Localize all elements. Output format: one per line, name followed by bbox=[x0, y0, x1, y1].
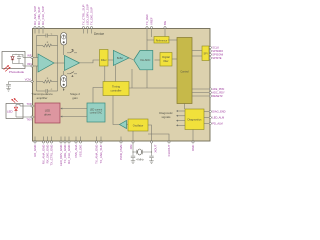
LED internal rails bbox=[16, 105, 20, 118]
svg-text:TX_DIG_SUP: TX_DIG_SUP bbox=[90, 7, 94, 25]
sigma-delta ADC U1 bbox=[134, 51, 153, 70]
pin TX_CTRL_SUP (top) bbox=[82, 5, 86, 34]
LED diode D2 bbox=[14, 105, 17, 118]
device label bbox=[94, 32, 104, 36]
op-amp A2 stage 2 gain bbox=[65, 55, 80, 70]
pin AFE_PDN bbox=[192, 87, 224, 91]
pin TX_DIG_GND (bottom) bbox=[63, 137, 67, 164]
diagnostic signals label bbox=[159, 111, 173, 119]
svg-text:LED: LED bbox=[7, 109, 13, 113]
diagnostic signal arrows bbox=[176, 110, 185, 126]
wire digital filter to control bbox=[172, 58, 177, 60]
pin TXN bbox=[20, 116, 35, 122]
ground (C1) bbox=[131, 161, 135, 164]
pin RX_ANA_SUP (top) bbox=[33, 6, 37, 34]
pin TX_DIG_SUP (top) bbox=[90, 7, 94, 34]
filter block bbox=[100, 50, 109, 67]
svg-text:RESETZ: RESETZ bbox=[212, 94, 223, 98]
pin INP bbox=[23, 54, 38, 59]
op-amp A1 transimpedance bbox=[38, 54, 54, 72]
TIA feedback rail left bbox=[36, 36, 38, 92]
pin VSS_ANA (bottom) bbox=[74, 137, 78, 158]
clock buffer amp A4 bbox=[120, 121, 127, 129]
svg-text:SPI: SPI bbox=[203, 52, 207, 55]
svg-text:control DAC: control DAC bbox=[90, 112, 103, 115]
wire diagnostics to bottom pin bbox=[192, 130, 194, 142]
svg-text:TX_CTRL_GND: TX_CTRL_GND bbox=[50, 145, 54, 166]
pin PD_ALM bbox=[204, 122, 223, 126]
pin DIAG_END bbox=[204, 110, 226, 114]
wire control to SPI bus bbox=[192, 51, 202, 57]
feedback resistor RF (upper) bbox=[37, 42, 58, 47]
current source I2 (bottom) bbox=[61, 71, 67, 91]
LED current control DAC block bbox=[87, 103, 105, 122]
wire ADC clock lines bbox=[132, 69, 147, 88]
light arrows into photodiode bbox=[4, 65, 11, 71]
junction XIN bbox=[132, 151, 133, 152]
svg-text:AFE_PDN: AFE_PDN bbox=[212, 87, 224, 91]
pin VCM bbox=[9, 78, 35, 83]
wire ADC to digital filter bbox=[155, 59, 161, 61]
wire stage2 to filter bbox=[80, 60, 100, 63]
svg-text:Reference: Reference bbox=[156, 39, 168, 42]
pin TX_REF (top) bbox=[145, 14, 149, 40]
pin TX_ANA_SUP (bottom) bbox=[99, 137, 103, 164]
pin RX_CLK_SUP (top) bbox=[41, 6, 45, 33]
capacitor C2 (XOUT) bbox=[149, 152, 153, 161]
svg-text:SCLK: SCLK bbox=[212, 46, 219, 50]
gain switch (upper) bbox=[67, 49, 77, 53]
svg-text:RX_GND: RX_GND bbox=[33, 145, 37, 157]
TIA feedback rail right bbox=[57, 36, 59, 92]
svg-text:Device: Device bbox=[94, 32, 104, 36]
svg-text:RX_CLK_GND: RX_CLK_GND bbox=[67, 145, 71, 164]
svg-text:gain: gain bbox=[72, 96, 78, 100]
wire filter to buffer bbox=[108, 59, 113, 61]
svg-text:LED_ALM: LED_ALM bbox=[212, 116, 224, 120]
svg-text:Filter: Filter bbox=[101, 58, 107, 62]
pin SPISOMI bbox=[209, 53, 223, 57]
control block bbox=[177, 38, 192, 104]
diagnostics block bbox=[185, 109, 204, 130]
svg-text:SPISIMO: SPISIMO bbox=[212, 49, 223, 53]
wire oscillator to XOUT bbox=[148, 125, 152, 142]
TIA label bbox=[31, 92, 53, 100]
device outline bbox=[33, 29, 211, 142]
svg-text:INP: INP bbox=[27, 54, 32, 58]
svg-text:CLKOUT: CLKOUT bbox=[167, 144, 171, 156]
wire DAC to LED driver (1) bbox=[60, 108, 87, 110]
pin SPISTE bbox=[209, 56, 222, 60]
wire buffer to ADC bbox=[129, 58, 133, 60]
svg-text:ADC_RDY: ADC_RDY bbox=[212, 91, 225, 95]
svg-text:SPISOMI: SPISOMI bbox=[212, 53, 223, 57]
svg-text:controller: controller bbox=[110, 88, 121, 92]
wire timing to oscillator bbox=[113, 96, 120, 125]
pin TXP bbox=[20, 102, 35, 107]
crystal X1 bbox=[137, 149, 143, 155]
svg-text:XOUT: XOUT bbox=[154, 144, 158, 152]
digital filter block bbox=[160, 53, 172, 67]
svg-text:INN: INN bbox=[27, 62, 32, 66]
wire XIN to crystal rail bbox=[132, 142, 134, 152]
crystal rail bbox=[133, 151, 152, 153]
svg-text:filter: filter bbox=[163, 59, 168, 63]
timing controller block bbox=[103, 82, 129, 96]
LED emission arrows bbox=[11, 98, 17, 103]
ground (C2) bbox=[149, 161, 153, 164]
capacitor C1 (XIN) bbox=[131, 152, 135, 161]
svg-text:TXN: TXN bbox=[26, 118, 31, 122]
svg-text:signals: signals bbox=[162, 115, 172, 119]
wire oscillator to XIN bbox=[132, 131, 134, 142]
feedback capacitor CF (top) bbox=[37, 33, 58, 37]
pin BG (top) bbox=[163, 20, 167, 37]
pin VSS_DIG (bottom) bbox=[79, 137, 83, 158]
wire clock buffer to oscillator bbox=[127, 124, 129, 126]
wire XOUT to crystal rail bbox=[151, 142, 153, 152]
svg-text:VSS_DIG: VSS_DIG bbox=[79, 144, 83, 157]
pin VREF (top) bbox=[150, 17, 154, 37]
pin TX_ANA_GND (bottom) bbox=[95, 137, 99, 164]
LED box bbox=[6, 104, 23, 119]
pin LED_DRV_SUP (top) bbox=[86, 4, 90, 33]
photodiode label bbox=[9, 70, 25, 74]
svg-text:Diagnostics: Diagnostics bbox=[188, 117, 203, 121]
wire timing to buffer bbox=[115, 65, 117, 81]
junction XOUT bbox=[151, 151, 152, 152]
pin SCLK bbox=[209, 46, 219, 50]
pin RX_GND (bottom) bbox=[33, 137, 37, 157]
gain switch (lower) bbox=[67, 72, 77, 77]
crystal frequency label bbox=[136, 157, 144, 161]
photodiode box bbox=[2, 52, 25, 69]
pin ADC_RDY bbox=[192, 91, 225, 95]
svg-text:Control: Control bbox=[180, 70, 189, 74]
svg-text:PD_ALM: PD_ALM bbox=[212, 122, 222, 126]
svg-text:TX_ANA_SUP: TX_ANA_SUP bbox=[99, 145, 103, 164]
pin XIN (bottom) bbox=[129, 141, 134, 150]
buffer amp A3 bbox=[113, 50, 129, 65]
svg-text:VCM: VCM bbox=[25, 78, 31, 82]
pin LED_ALM bbox=[204, 116, 224, 120]
pin PWR_DWN (bottom) bbox=[119, 137, 123, 160]
svg-text:Photodiode: Photodiode bbox=[9, 70, 25, 74]
svg-text:Digital: Digital bbox=[162, 55, 170, 59]
svg-text:LED current: LED current bbox=[90, 109, 103, 112]
pin RESETZ bbox=[192, 94, 223, 98]
svg-text:ΣΔ ADC: ΣΔ ADC bbox=[140, 58, 150, 62]
LED label bbox=[7, 109, 13, 113]
pin SPISIMO bbox=[209, 49, 223, 53]
pin RX_ANA_GND (bottom) bbox=[42, 137, 46, 165]
svg-text:DNC: DNC bbox=[191, 145, 195, 151]
svg-text:TX_REF: TX_REF bbox=[145, 14, 149, 25]
photodiode junction cap bbox=[17, 55, 24, 64]
wire timing to LED DAC bbox=[93, 88, 103, 104]
ground (VCM cap) bbox=[6, 89, 10, 92]
oscillator block bbox=[128, 119, 148, 131]
svg-text:TXP: TXP bbox=[26, 102, 31, 106]
svg-text:SPISTE: SPISTE bbox=[212, 56, 221, 60]
photodiode internal rails bbox=[13, 54, 24, 66]
current source I1 (top) bbox=[61, 33, 67, 56]
VCM bypass capacitor bbox=[6, 82, 11, 89]
wire control to diagnostics bbox=[184, 104, 186, 110]
svg-text:VSS_ANA: VSS_ANA bbox=[74, 145, 78, 158]
svg-text:PWR_DWN: PWR_DWN bbox=[119, 145, 123, 160]
pin CLKOUT (bottom) bbox=[167, 141, 171, 156]
svg-text:driver: driver bbox=[44, 112, 51, 116]
svg-text:4 MHz: 4 MHz bbox=[136, 157, 144, 161]
feedback capacitor CF (bottom) bbox=[37, 89, 58, 93]
wire reference to ADC bbox=[147, 40, 154, 51]
wire DAC to LED driver (2) bbox=[60, 116, 87, 118]
pin XOUT (bottom) bbox=[150, 141, 157, 153]
svg-text:Oscillator: Oscillator bbox=[133, 125, 144, 128]
wire timing to control bbox=[129, 87, 177, 89]
svg-text:DIAG_END: DIAG_END bbox=[212, 110, 225, 114]
wire oscillator to CLKOUT bbox=[148, 134, 169, 142]
SPI block bbox=[202, 46, 209, 61]
svg-text:BG: BG bbox=[163, 20, 167, 25]
pin DNC (bottom) bbox=[191, 141, 195, 151]
svg-text:amplifier: amplifier bbox=[37, 96, 48, 100]
pin INN bbox=[23, 62, 38, 67]
svg-text:TX_ANA_GND: TX_ANA_GND bbox=[95, 145, 99, 164]
wire reference to control bbox=[168, 39, 177, 41]
svg-text:Buffer: Buffer bbox=[117, 57, 124, 60]
svg-text:Timing: Timing bbox=[112, 85, 120, 89]
pin RX_DIG_SUP (top) bbox=[37, 7, 41, 34]
pin RX_DIG_GND (bottom) bbox=[46, 137, 50, 164]
svg-text:VREF: VREF bbox=[150, 17, 154, 25]
wire timing to filter bbox=[104, 66, 106, 82]
feedback resistor RF (lower) bbox=[37, 78, 58, 83]
stage 2 label bbox=[70, 92, 80, 100]
pin TX_CTRL_GND (bottom) bbox=[50, 137, 54, 166]
svg-text:RX_CLK_SUP: RX_CLK_SUP bbox=[41, 6, 45, 25]
pin RX_CLK_GND (bottom) bbox=[67, 137, 71, 164]
reference block bbox=[154, 37, 169, 44]
svg-text:XIN: XIN bbox=[129, 145, 133, 150]
LED driver block bbox=[35, 103, 60, 123]
pin LED_DRV_GND (bottom) bbox=[59, 137, 63, 166]
photodiode diode D1 bbox=[11, 55, 14, 64]
wire TIA output bbox=[54, 62, 65, 64]
